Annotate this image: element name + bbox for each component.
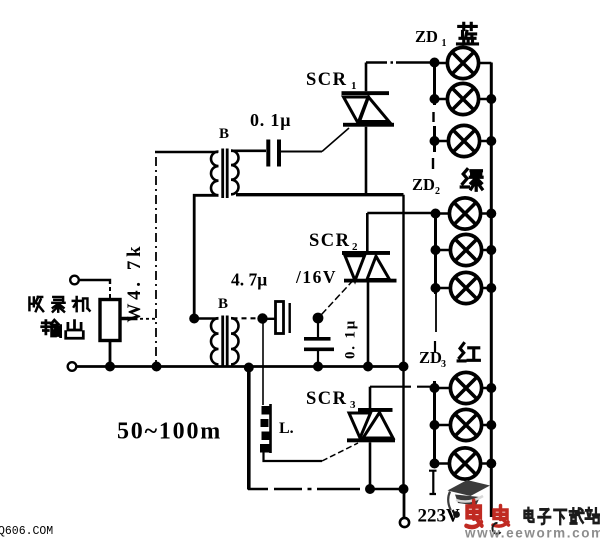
svg-text:0. 1μ: 0. 1μ [343, 319, 359, 359]
wire B1 primary bottom down [194, 195, 218, 314]
right rail nodes [486, 94, 496, 104]
transformer B2 core [223, 316, 228, 367]
wire thin down to inductor [262, 323, 264, 405]
SCR1 top lead [365, 63, 368, 92]
svg-text:0. 1μ: 0. 1μ [250, 110, 291, 130]
SCR3 top bar [358, 408, 393, 412]
svg-text:Q606.COM: Q606.COM [0, 525, 53, 538]
label shou-lu-ji (tape recorder) [29, 297, 43, 311]
wire wiper dashes to dashline [140, 318, 157, 320]
svg-text:1: 1 [442, 38, 447, 49]
svg-text:ZD: ZD [412, 175, 435, 194]
wire gate node to cap2 [317, 322, 319, 337]
right rail [490, 63, 493, 518]
wire right drop x404 [402, 195, 404, 489]
red rail left [433, 381, 436, 468]
node cap4u7 [257, 313, 267, 323]
lamp EL6 green [436, 287, 492, 290]
red rail bracket foot [429, 471, 437, 494]
SCR2 bottom bar [344, 279, 397, 283]
lamp EL8 red [435, 424, 492, 427]
svg-text:2: 2 [435, 186, 440, 197]
wire gate node diagonal to SCR2 [322, 282, 353, 315]
SCR3 bottom bar [347, 438, 395, 442]
green rail left [434, 214, 437, 295]
node blue rail joints [430, 58, 440, 68]
svg-text:1: 1 [351, 80, 357, 92]
wire input top to pot [80, 280, 111, 284]
input terminal bottom [68, 362, 77, 371]
lamp EL9 red [435, 462, 492, 465]
SCR3 top lead [369, 387, 372, 408]
label shu-chu (output) [42, 320, 61, 337]
SCR1 bottom bar [343, 123, 394, 127]
wire SCR2 to green rail [367, 212, 433, 215]
wire B2 secondary bottom drop [247, 369, 251, 490]
wire B2 secondary top dashes [233, 317, 259, 319]
grad cap base [455, 495, 480, 506]
wire cap2 to bottom rail [317, 351, 319, 364]
svg-text:3: 3 [441, 359, 446, 370]
node 220V junction [399, 484, 409, 494]
wire bottom rail [77, 365, 404, 368]
node SCR2 bottom [363, 362, 373, 372]
svg-text:3: 3 [350, 399, 356, 411]
label hong (red) [458, 343, 479, 361]
capacitor 4.7u box plate [276, 302, 284, 334]
node dashline-bottom [152, 362, 162, 372]
SCR2 left triangle [345, 256, 365, 281]
node mid-rail right end [399, 362, 409, 372]
wire bottom dashdot [248, 488, 360, 491]
transformer B2 secondary coil [231, 318, 239, 364]
label lan (blue) [458, 23, 478, 44]
grad cap stripe [456, 496, 483, 502]
WATERMARK eeworm [448, 480, 600, 539]
svg-text:www.eeworm.com: www.eeworm.com [464, 526, 600, 539]
wire gate dotted diagonal SCR3 [322, 443, 358, 461]
wire pot bottom [109, 341, 112, 367]
dianzi xiazaizhan [524, 508, 599, 524]
node B1-B2 junction [189, 314, 199, 324]
capacitor 0.1u-2 plates [304, 337, 331, 341]
wire B1 secondary bottom [236, 193, 404, 196]
lamp EL5 green [436, 249, 492, 252]
lamp EL7 red [435, 387, 492, 390]
SCR3 bottom lead [369, 442, 372, 489]
wire SCR1 to blue rail [366, 61, 432, 64]
svg-text:L.: L. [279, 420, 294, 437]
SCR3 left triangle [349, 413, 371, 438]
SCR2 top lead [366, 213, 369, 251]
SCR2 bottom lead [367, 283, 370, 365]
grad cap tassel [448, 492, 450, 510]
SCR2 top bar [342, 251, 390, 255]
CHINESE GLYPHS (hand drawn) [29, 23, 482, 361]
potentiometer wiper [120, 317, 138, 321]
wire node to ecap [263, 318, 276, 320]
node pot-bottom [105, 362, 115, 372]
svg-text:B: B [218, 296, 228, 312]
lamp EL1 blue [435, 62, 492, 65]
svg-text:ZD: ZD [419, 348, 442, 367]
svg-text:W4. 7k: W4. 7k [124, 243, 145, 323]
SCR2 right triangle [367, 256, 390, 279]
wire pot top dashes [109, 287, 111, 299]
svg-text:/16V: /16V [295, 267, 337, 287]
SCR1 left triangle [344, 97, 369, 123]
node drop top [244, 363, 254, 373]
220V terminal [400, 518, 409, 527]
svg-text:SCR: SCR [309, 231, 351, 251]
SCR1 bottom lead [365, 127, 368, 194]
inductor L [269, 404, 272, 453]
node SCR2 gate [313, 313, 324, 324]
right rail hook [492, 523, 500, 534]
wire B2 primary top [194, 317, 218, 319]
wire top left [155, 151, 218, 154]
node SCR3 bottom [365, 484, 375, 494]
SCR3 right triangle [363, 413, 393, 439]
transformer B1 secondary coil [231, 151, 239, 195]
transformer B1 core [223, 149, 228, 199]
svg-text:ZD: ZD [415, 27, 438, 46]
lamp EL2 blue [435, 98, 492, 101]
capacitor 4.7u line plate [289, 303, 291, 333]
SCR1 top bar [342, 91, 390, 95]
potentiometer W body [100, 300, 120, 341]
wire SCR3 to red rail [370, 386, 432, 388]
node cap2 bottom [313, 362, 323, 372]
svg-text:SCR: SCR [306, 70, 348, 90]
wire gate diagonal SCR1 [322, 128, 349, 152]
LAMP GROUPS [429, 47, 496, 517]
grad cap board [448, 480, 491, 496]
blue rail left [433, 63, 436, 153]
transformer B1 primary coil [211, 152, 219, 196]
chong chong red [466, 501, 508, 527]
svg-text:B: B [219, 126, 229, 142]
label lv (green) [461, 169, 482, 190]
svg-text:2: 2 [352, 241, 358, 253]
wire inductor bottom [264, 451, 323, 461]
wire 220V lead [403, 489, 406, 518]
SCR1 right triangle [360, 97, 390, 122]
lamp EL4 green [436, 212, 492, 215]
wire dash-dot vertical feedback [155, 157, 157, 364]
wire cap to gate [281, 151, 322, 153]
svg-text:SCR: SCR [306, 389, 348, 409]
lamp EL3 blue [435, 140, 492, 143]
transformer B2 primary coil [211, 318, 218, 364]
wire B1 secondary top to cap [231, 150, 266, 153]
svg-text:50~100m: 50~100m [117, 419, 222, 445]
svg-text:4. 7μ: 4. 7μ [231, 270, 267, 290]
input terminal top [70, 276, 79, 285]
capacitor 0.1u top plates [268, 140, 279, 167]
